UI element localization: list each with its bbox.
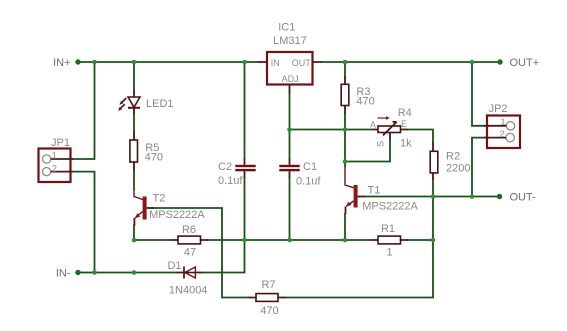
junction JP1-pin1 / IN+ rail: [92, 60, 97, 65]
wire IN+ top rail left: [78, 61, 258, 63]
node IN- pin dot: [75, 270, 80, 275]
junction R3 branch / OUT+ rail: [343, 60, 348, 65]
wire JP2 pin2 to OUT- rail: [472, 138, 484, 197]
wire R4 wiper to node: [345, 140, 390, 162]
wire C1 bottom to rail: [289, 178, 291, 240]
node OUT- pin dot: [497, 194, 502, 199]
connector JP1: [39, 137, 74, 182]
junction JP2-pin1 / OUT+ rail: [470, 60, 475, 65]
resistor R6: [171, 224, 209, 258]
wire T1 emitter to rail: [344, 214, 346, 240]
svg-text:ADJ: ADJ: [282, 74, 299, 84]
svg-text:1: 1: [500, 117, 505, 128]
wire node to T1 collector: [344, 130, 346, 167]
svg-text:LM317: LM317: [273, 35, 307, 47]
wire IN- rail: [78, 240, 245, 273]
junction R2 bottom / OUT- rail: [431, 194, 436, 199]
svg-text:R2: R2: [446, 151, 460, 163]
wire T2 base to R7: [154, 208, 249, 298]
junction T1 emitter / R6 rail: [343, 238, 348, 243]
resistor R2: [430, 142, 470, 180]
svg-text:IN: IN: [271, 58, 280, 68]
wire T2 emitter to R6 rail: [133, 226, 135, 241]
wire R3 bottom to node: [344, 114, 346, 130]
svg-text:JP2: JP2: [489, 103, 508, 115]
op-amp regulator IC1 LM317: [258, 21, 322, 93]
junction R1 right / OUT- vertical: [431, 238, 436, 243]
junction ADJ node / R3 bottom: [343, 127, 348, 132]
svg-text:T2: T2: [153, 193, 166, 205]
capacitor C2: [218, 158, 256, 187]
svg-text:MPS2222A: MPS2222A: [149, 209, 205, 221]
svg-text:IC1: IC1: [278, 21, 295, 33]
JP1 pin 1 lead: [51, 158, 73, 160]
svg-text:OUT+: OUT+: [510, 57, 540, 69]
wire ADJ node to R4 A: [290, 129, 373, 131]
svg-text:LED1: LED1: [146, 98, 174, 110]
svg-text:T1: T1: [368, 185, 381, 197]
JP1 pad circle 1: [43, 155, 51, 163]
JP2 pin 1 lead: [484, 125, 506, 127]
svg-text:47: 47: [184, 246, 196, 258]
wire R7 to OUT- vertical: [286, 197, 434, 298]
svg-text:JP1: JP1: [51, 137, 70, 149]
wire R5 to T2 collector: [133, 171, 135, 190]
svg-text:R4: R4: [398, 107, 412, 119]
junction C2 bottom / R6 rail: [242, 238, 247, 243]
wire JP1 pin2 to IN- rail: [73, 172, 95, 273]
JP1 pad circle 2: [43, 168, 51, 176]
svg-text:2200: 2200: [446, 162, 470, 174]
svg-text:0.1uf: 0.1uf: [218, 175, 243, 187]
svg-text:1k: 1k: [400, 137, 412, 149]
svg-text:1: 1: [52, 151, 57, 162]
node IN+ pin dot: [75, 59, 80, 64]
junction JP2-pin2 / OUT- rail: [470, 194, 475, 199]
svg-text:0.1uf: 0.1uf: [296, 176, 321, 188]
junction LED branch / IN+ rail: [132, 60, 137, 65]
resistor R3: [341, 76, 375, 114]
svg-text:470: 470: [260, 305, 278, 317]
resistor R1: [371, 223, 409, 258]
svg-text:R1: R1: [381, 223, 395, 235]
junction R4 wiper node: [343, 159, 348, 164]
wire IN+ top rail right of IC1: [322, 61, 501, 63]
potentiometer R4: [370, 107, 412, 149]
capacitor C1: [279, 158, 321, 187]
svg-text:IN+: IN+: [53, 57, 70, 69]
wire R4 E to R2: [408, 130, 434, 142]
svg-text:470: 470: [145, 152, 163, 164]
svg-text:OUT: OUT: [292, 58, 312, 68]
transistor T1: [345, 166, 419, 214]
svg-text:OUT-: OUT-: [510, 192, 537, 204]
wire C2 branch from top rail: [244, 62, 246, 158]
wire R2 to OUT- rail: [432, 180, 434, 197]
transistor T2: [134, 189, 205, 226]
wire R3 top from rail: [344, 62, 346, 76]
svg-text:1N4004: 1N4004: [169, 285, 208, 297]
wire LED1 to R5: [133, 114, 135, 132]
JP2 pin 2 lead: [484, 137, 506, 139]
diode D1: [167, 260, 207, 297]
svg-text:1: 1: [386, 247, 392, 259]
wire JP2 pin1 to OUT+ rail: [472, 62, 484, 126]
svg-text:IN-: IN-: [56, 268, 71, 280]
resistor R7: [249, 279, 286, 317]
svg-text:E: E: [401, 119, 407, 129]
LED LED1: [118, 91, 174, 115]
JP2 pad circle 2: [506, 133, 514, 141]
svg-text:S: S: [376, 141, 386, 147]
JP1 pin 2 lead: [51, 171, 73, 173]
wire C2 bottom to rail: [244, 178, 246, 240]
wire R6 rail: [134, 239, 433, 241]
svg-text:R6: R6: [182, 224, 196, 236]
svg-text:R7: R7: [261, 279, 275, 291]
JP2 pad circle 1: [506, 122, 514, 130]
junction LED branch / IN- rail: [132, 270, 137, 275]
svg-text:2: 2: [52, 163, 57, 174]
junction T2 emitter / R6 rail: [132, 238, 137, 243]
node OUT+ pin dot: [497, 59, 502, 64]
junction ADJ node / C1: [287, 127, 292, 132]
svg-text:2: 2: [499, 129, 504, 140]
wire JP1 pin1 to IN+ rail: [73, 62, 95, 159]
svg-text:470: 470: [356, 96, 374, 108]
connector JP2: [484, 103, 520, 148]
resistor R5: [130, 132, 163, 171]
svg-text:A: A: [370, 120, 376, 130]
svg-text:D1: D1: [167, 260, 181, 272]
svg-text:C2: C2: [218, 161, 232, 173]
wire LED branch from IN+ rail: [133, 62, 135, 91]
svg-text:C1: C1: [303, 161, 317, 173]
wire IC1 ADJ down: [289, 94, 291, 159]
junction JP1-pin2 / IN- rail: [92, 270, 97, 275]
wire OUT- rail: [365, 196, 500, 198]
svg-text:MPS2222A: MPS2222A: [362, 200, 418, 212]
junction C2 branch / IN+ rail: [242, 60, 247, 65]
junction C1 bottom / R6 rail: [287, 238, 292, 243]
